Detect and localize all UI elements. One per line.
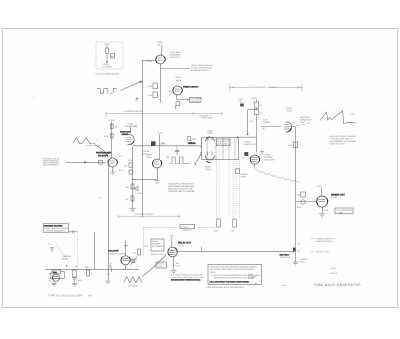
svg-text:100K: 100K [84,266,89,269]
svg-text:SAWTOOTH: SAWTOOTH [120,131,132,134]
svg-text:6AU6: 6AU6 [147,156,153,159]
svg-text:TIME BASE GENERATOR: TIME BASE GENERATOR [314,283,361,287]
svg-text:V135B: V135B [175,76,182,79]
svg-text:GATE OFF CIRCUIT: GATE OFF CIRCUIT [135,213,154,216]
svg-text:AMP: AMP [339,211,344,214]
svg-text:100K: 100K [148,85,153,88]
svg-text:A SWEEP HOLDOFF: A SWEEP HOLDOFF [124,110,144,113]
svg-text:3 ALL IMPORTANT VOLTAGES ARE: 3 ALL IMPORTANT VOLTAGES ARE IN BOXES [210,281,250,284]
svg-text:▷ SEE IMPORTANT NOTE ON DIAGR: ▷ SEE IMPORTANT NOTE ON DIAGRAM 2 [205,286,245,289]
svg-text:PRETRIGGER: PRETRIGGER [96,152,112,155]
svg-text:R160 SEE TEXT: R160 SEE TEXT [330,143,346,146]
svg-text:(DEC): (DEC) [158,44,164,47]
svg-text:SWP: SWP [78,279,83,282]
svg-text:4-22-74: 4-22-74 [330,272,338,275]
svg-text:TIME/CM SWITCH SW160: TIME/CM SWITCH SW160 [168,190,195,193]
svg-text:+GATE A ≈ 30V: +GATE A ≈ 30V [316,251,331,254]
svg-text:MODE: MODE [62,258,69,261]
svg-text:TRIG: TRIG [53,271,58,274]
svg-text:AUTO: AUTO [248,277,254,280]
svg-text:1M: 1M [125,198,128,201]
svg-text:CLAMP: CLAMP [205,168,213,171]
svg-text:10 mS/CM: 10 mS/CM [128,285,138,288]
svg-text:TIMING: TIMING [263,121,270,124]
svg-text:100K: 100K [192,138,197,141]
svg-text:8.2K: 8.2K [119,169,124,172]
svg-text:SCALE ILLUM NETWORK: SCALE ILLUM NETWORK [95,73,119,76]
svg-text:BLANKING DIAG 2: BLANKING DIAG 2 [191,69,209,72]
svg-text:DELAY OUT: DELAY OUT [178,242,192,245]
svg-text:CONTROL: CONTROL [190,100,201,103]
svg-text:HOLDOFF: HOLDOFF [109,249,120,252]
svg-text:+225V: +225V [157,132,164,135]
svg-text:6AU6: 6AU6 [176,79,182,82]
svg-text:V173A: V173A [178,244,185,247]
svg-text:100K: 100K [147,60,152,63]
svg-text:PICKOFF: PICKOFF [183,229,192,232]
svg-text:(DELAY LEVEL): (DELAY LEVEL) [151,253,166,256]
svg-text:NOTE:: NOTE: [210,271,217,274]
svg-text:V153B: V153B [331,196,338,199]
svg-text:PICKOFF: PICKOFF [98,154,109,157]
svg-text:SEE IMPORTANT SERVICE NOTE ▷: SEE IMPORTANT SERVICE NOTE ▷ [171,278,201,281]
svg-text:CYCLE MIN: CYCLE MIN [201,117,212,120]
svg-text:+225V: +225V [109,119,116,122]
svg-text:APPROX 10V/CM: APPROX 10V/CM [316,240,332,243]
svg-text:GATE AMP: GATE AMP [264,159,275,162]
svg-text:SWEEP LENGTH: SWEEP LENGTH [183,85,199,88]
svg-text:4.7K: 4.7K [288,144,293,147]
svg-text:(TRIGGERED): (TRIGGERED) [124,125,138,128]
svg-text:ILLUM BUS: ILLUM BUS [102,65,113,68]
svg-text:100K: 100K [128,159,133,162]
svg-text:1M: 1M [114,126,117,129]
svg-text:FOLLOWER: FOLLOWER [152,245,164,248]
svg-text:PULSE REPEAT—1 CYCLE: PULSE REPEAT—1 CYCLE [251,86,277,89]
svg-text:470K: 470K [104,135,109,138]
svg-text:THE SAME CONDITIONS GIVEN ON D: THE SAME CONDITIONS GIVEN ON DIAGRAM 2 [210,268,256,271]
svg-text:A LO: A LO [157,265,162,268]
svg-text:LAST: LAST [331,267,337,270]
svg-text:SW SEE DIAGRAM 2: SW SEE DIAGRAM 2 [46,229,66,232]
svg-text:0.7%: 0.7% [176,265,181,268]
svg-text:CAPACITORS SELECTED AT FACTORY: CAPACITORS SELECTED AT FACTORY [171,276,205,279]
svg-text:A TRIG: A TRIG [181,226,188,229]
svg-text:LIST SW40: LIST SW40 [217,142,228,145]
svg-text:SEE DIAGRAM 2: SEE DIAGRAM 2 [43,164,59,167]
svg-text:(DEC): (DEC) [208,132,214,135]
svg-text:SWEEP HOLDOFF: SWEEP HOLDOFF [108,252,126,255]
svg-text:−150V: −150V [136,192,143,195]
svg-text:REGISTER: REGISTER [280,256,291,259]
svg-text:RUNS: RUNS [241,176,247,179]
svg-text:AMP V135: AMP V135 [170,56,180,59]
svg-text:TYPE 5A OSCILLOSCOPE: TYPE 5A OSCILLOSCOPE [48,295,83,298]
svg-text:TIMING: TIMING [188,142,196,145]
svg-text:AA: AA [88,295,92,298]
svg-text:(SAWTOOTH): (SAWTOOTH) [243,143,256,146]
svg-text:GEN: GEN [300,261,305,264]
svg-text:1M: 1M [124,165,127,168]
